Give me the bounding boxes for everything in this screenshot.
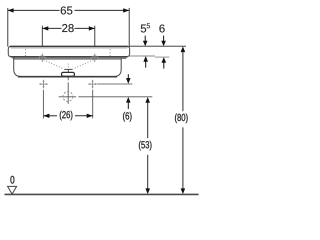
hidden drain diagonal right — [73, 60, 94, 69]
dimension 65 label — [61, 6, 73, 14]
drain plug — [62, 72, 75, 76]
extension line bolt left down — [42, 90, 44, 119]
dimension 6 down arrow — [127, 74, 129, 79]
rim lower second line — [13, 57, 127, 59]
arrow 5.5 down — [144, 36, 146, 42]
hidden inner edge left dotted — [25, 49, 27, 58]
dimension 65 line — [8, 9, 130, 11]
arrow 5.5 up — [145, 61, 147, 67]
arrow 6 up — [163, 62, 165, 68]
drain centre line lower — [67, 82, 69, 104]
deck front light line — [11, 47, 127, 49]
level marker triangle — [8, 186, 17, 194]
dimension 28 right arrow — [89, 26, 95, 30]
extension line left tap hole — [41, 26, 43, 58]
trap centre horizontal line — [59, 96, 77, 98]
dimension 80 down arrow — [181, 188, 186, 194]
extension line apron 6 — [155, 56, 169, 58]
dimension 28 left arrow — [42, 26, 48, 30]
drain centre line below — [67, 77, 69, 80]
trap centre horizontal line right — [78, 96, 152, 98]
rim bottom edge emphasis — [11, 56, 128, 58]
dimension 26 right arrow — [87, 114, 93, 118]
fixing bolt right cross — [88, 80, 97, 89]
extension line right tap hole — [94, 26, 96, 58]
dimension 80 up arrow — [181, 46, 186, 52]
dimension 53 label — [139, 141, 152, 151]
label 6 top — [159, 24, 164, 32]
dimension 28 line — [42, 27, 95, 29]
tap hole left cross — [38, 54, 47, 62]
fixing bolt left cross — [39, 80, 48, 89]
hidden inner edge right dotted — [109, 49, 111, 56]
dimension 65 right arrow — [123, 8, 129, 12]
dimension 26 line — [43, 115, 92, 117]
dimension 6 label — [123, 112, 131, 122]
dimension 26 left arrow — [43, 114, 49, 118]
dimension 6 up arrow — [127, 103, 129, 109]
tap hole right cross — [90, 54, 99, 62]
dimension 53 up arrow — [145, 97, 150, 103]
washbasin rim outline — [8, 46, 129, 56]
drain plug stem horizontal — [64, 68, 72, 70]
dimension 53 line — [147, 103, 149, 139]
dimension 80 line — [182, 52, 184, 111]
extension line basin top right — [129, 45, 186, 47]
extension line rim bottom 5.5 — [128, 55, 155, 57]
ground line — [5, 193, 199, 195]
dimension 26 label — [60, 111, 73, 121]
hidden drain diagonal left — [44, 60, 65, 69]
level marker 0 label — [10, 176, 14, 184]
drain plug stem vertical — [67, 69, 69, 72]
dimension 80 label — [175, 114, 188, 124]
label 5.5 — [141, 23, 150, 32]
extension line bolts right — [97, 83, 132, 85]
dimension 53 down arrow — [145, 188, 150, 194]
extension line right of 65 — [128, 8, 130, 47]
arrow 6 down — [163, 36, 165, 42]
bowl bottom emphasis — [18, 76, 117, 78]
apron light line — [14, 58, 122, 60]
bowl outline — [14, 58, 122, 77]
dimension 28 label — [62, 24, 74, 32]
extension line left of 65 — [7, 8, 9, 47]
extension line bolt right down — [92, 90, 94, 119]
dimension 65 left arrow — [8, 8, 14, 12]
drain centre dotted vertical — [67, 64, 69, 69]
rim top edge emphasis — [10, 46, 128, 48]
trap dashed circle — [63, 92, 73, 102]
